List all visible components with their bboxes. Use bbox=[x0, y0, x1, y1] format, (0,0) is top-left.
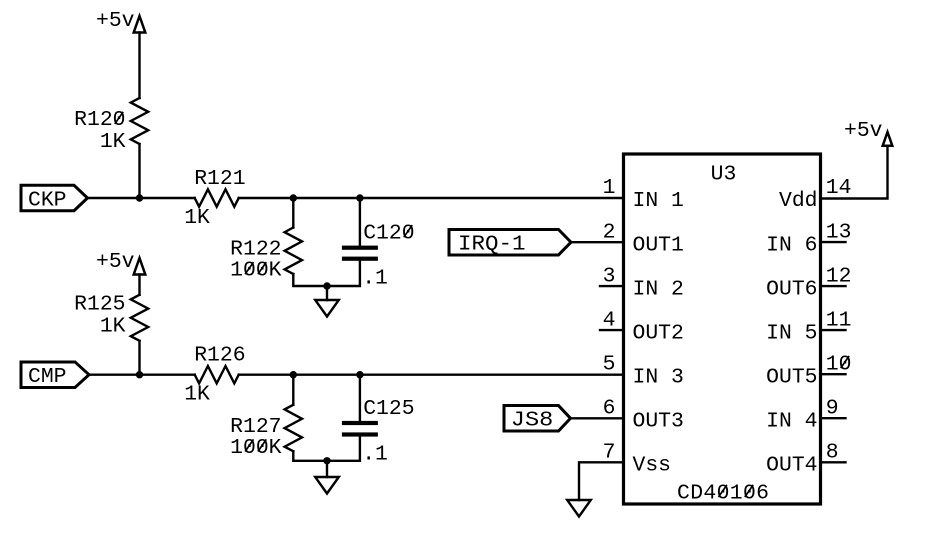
svg-text:OUT1: OUT1 bbox=[633, 233, 684, 257]
svg-text:3: 3 bbox=[603, 264, 616, 288]
svg-text:2: 2 bbox=[603, 220, 616, 244]
svg-text:100K: 100K bbox=[230, 436, 282, 460]
svg-text:10: 10 bbox=[826, 352, 852, 376]
svg-text:CD40106: CD40106 bbox=[677, 481, 769, 505]
svg-text:C125: C125 bbox=[363, 397, 414, 421]
svg-text:14: 14 bbox=[826, 176, 852, 200]
svg-text:OUT4: OUT4 bbox=[766, 454, 817, 478]
svg-text:+5v: +5v bbox=[96, 250, 135, 274]
svg-text:9: 9 bbox=[826, 396, 839, 420]
svg-text:U3: U3 bbox=[711, 162, 737, 186]
svg-text:1K: 1K bbox=[184, 206, 210, 230]
svg-text:OUT5: OUT5 bbox=[766, 365, 817, 389]
svg-text:7: 7 bbox=[603, 441, 616, 465]
svg-text:IN 6: IN 6 bbox=[766, 233, 817, 257]
svg-text:R126: R126 bbox=[194, 344, 245, 368]
svg-text:CKP: CKP bbox=[28, 189, 67, 213]
svg-text:OUT2: OUT2 bbox=[633, 321, 684, 345]
svg-text:100K: 100K bbox=[230, 259, 282, 283]
svg-text:CMP: CMP bbox=[28, 365, 67, 389]
svg-text:12: 12 bbox=[826, 264, 852, 288]
svg-text:R125: R125 bbox=[74, 293, 125, 317]
svg-text:+5v: +5v bbox=[96, 9, 135, 33]
svg-text:.1: .1 bbox=[362, 442, 388, 466]
svg-text:IN 3: IN 3 bbox=[633, 365, 684, 389]
svg-text:8: 8 bbox=[826, 441, 839, 465]
svg-text:Vdd: Vdd bbox=[779, 189, 818, 213]
svg-text:IN 4: IN 4 bbox=[766, 409, 817, 433]
svg-text:1K: 1K bbox=[100, 130, 126, 154]
svg-text:JS8: JS8 bbox=[511, 409, 554, 433]
svg-text:13: 13 bbox=[826, 220, 852, 244]
svg-text:IN 5: IN 5 bbox=[766, 321, 817, 345]
svg-text:OUT3: OUT3 bbox=[633, 409, 684, 433]
svg-text:1: 1 bbox=[603, 176, 616, 200]
svg-text:OUT6: OUT6 bbox=[766, 277, 817, 301]
svg-text:.1: .1 bbox=[362, 266, 388, 290]
svg-text:4: 4 bbox=[603, 308, 616, 332]
svg-text:IN 1: IN 1 bbox=[633, 189, 684, 213]
svg-text:11: 11 bbox=[826, 308, 852, 332]
svg-text:R121: R121 bbox=[194, 167, 245, 191]
svg-text:Vss: Vss bbox=[633, 454, 672, 478]
svg-text:6: 6 bbox=[603, 396, 616, 420]
svg-text:IN 2: IN 2 bbox=[633, 277, 684, 301]
svg-text:1K: 1K bbox=[184, 383, 210, 407]
svg-text:1K: 1K bbox=[100, 314, 126, 338]
svg-text:+5v: +5v bbox=[844, 119, 883, 143]
svg-text:5: 5 bbox=[603, 352, 616, 376]
svg-text:IRQ-1: IRQ-1 bbox=[458, 232, 526, 256]
